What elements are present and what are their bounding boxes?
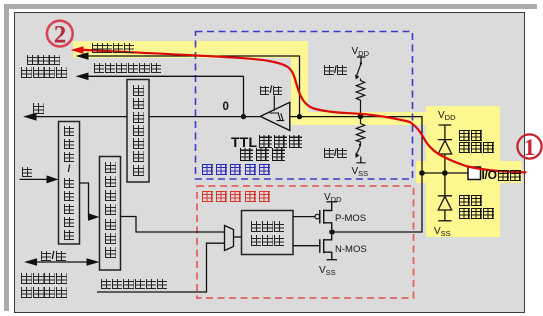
wires: output control to P-MOS gate (with bubble) bbox=[293, 216, 315, 218]
mux trapezoid bbox=[225, 226, 234, 251]
lower VSS tbar bbox=[438, 220, 451, 222]
label: 0 bbox=[223, 101, 229, 113]
label: N-MOS bbox=[335, 244, 367, 255]
wire: output control to N-MOS gate bbox=[293, 245, 319, 247]
red analog path curve bbox=[80, 50, 527, 173]
wire: pad rail horizontal bbox=[422, 172, 468, 174]
label: 开/关 (pull-up) bbox=[324, 65, 347, 76]
node: mos drain junction bbox=[329, 229, 335, 235]
wire: output register to mux bbox=[121, 217, 225, 233]
wire: mos output to pad column bbox=[332, 173, 422, 232]
protection diode upper: VDD tbar bbox=[439, 125, 452, 139]
frame shadow top bbox=[4, 4, 537, 9]
label: 触发器 bbox=[240, 148, 285, 161]
pull-down VSS tbar bbox=[356, 157, 365, 163]
arrow analog input (black) bbox=[76, 52, 89, 60]
transistor P-MOS bbox=[320, 202, 332, 229]
label: to on-chip peripheral (至片上) bbox=[27, 55, 60, 66]
label: 读 bbox=[33, 103, 44, 121]
label: 输出控 制电路 bbox=[251, 221, 285, 246]
node: rail/resistor junction bbox=[358, 113, 364, 119]
label: 输入驱动器 (blue) bbox=[202, 164, 270, 175]
svg-text:1: 1 bbox=[524, 135, 536, 160]
label: 读/写 bbox=[41, 250, 66, 262]
label: 写 bbox=[22, 167, 32, 185]
yellow I/O pad strip bbox=[416, 161, 522, 183]
node: alt-input tap bbox=[241, 114, 246, 119]
wire: analog input line bbox=[88, 56, 300, 117]
label: 保护 (upper) bbox=[459, 130, 482, 141]
wire: mux to output control bbox=[234, 236, 242, 238]
label: TTL施密特 bbox=[231, 134, 302, 150]
label: VDD (pull-up) bbox=[352, 46, 370, 58]
label: 开/关 (pull-down) bbox=[324, 148, 347, 159]
protection diode lower: D2 bbox=[438, 173, 452, 221]
label: 模拟输入 bbox=[92, 43, 135, 53]
wire: alt function output bbox=[97, 243, 225, 292]
wire: write arrow bbox=[20, 178, 50, 180]
label: VDD (pmos) bbox=[324, 192, 342, 204]
label: 外设模块 bbox=[21, 67, 67, 78]
box: input data register bbox=[127, 80, 149, 183]
label: 开/关 (trigger) bbox=[260, 85, 283, 96]
svg-text:2: 2 bbox=[54, 22, 67, 49]
frame shadow left bbox=[4, 4, 9, 311]
vertical text: 位设置/清除寄存器 bbox=[64, 126, 74, 240]
node at diode branch bbox=[442, 170, 448, 176]
N-MOS VSS tbar bbox=[327, 259, 338, 261]
label: VDD (diode) bbox=[438, 110, 456, 122]
label: 复用功能输入 bbox=[94, 63, 162, 73]
input driver dashed box bbox=[196, 32, 413, 180]
circled 1 bbox=[517, 134, 541, 158]
I/O pad square bbox=[468, 167, 481, 180]
node at column bbox=[419, 170, 425, 176]
label: P-MOS bbox=[335, 213, 366, 224]
P-MOS VDD tbar bbox=[327, 201, 338, 203]
trigger hysteresis symbol bbox=[270, 113, 285, 121]
wire: read/write double arrow bbox=[36, 261, 87, 263]
box: bit set/clear register bbox=[59, 122, 80, 245]
yellow highlight band C (pad rail) bbox=[289, 112, 427, 125]
label: VSS (diode) bbox=[434, 226, 451, 238]
circled 2 bbox=[47, 21, 73, 47]
wire: read line to input data register bbox=[35, 116, 127, 118]
box: output control circuit bbox=[242, 211, 294, 255]
label: 复用功能输出 bbox=[101, 279, 167, 289]
output driver dashed box bbox=[197, 186, 414, 298]
vertical text: 输出数据寄存器 bbox=[105, 162, 116, 259]
wire: trigger to pad rail bbox=[290, 117, 422, 173]
label: 输出驱动器 (red) bbox=[202, 191, 270, 202]
label: 二极管 (lower) bbox=[459, 208, 494, 219]
arrow alt-function-input bbox=[76, 73, 89, 81]
arrow read left bbox=[23, 113, 37, 121]
wire: main rail register to trigger tip bbox=[149, 116, 260, 118]
diode D1 bbox=[438, 140, 452, 173]
label: VSS (pull-down) bbox=[352, 166, 369, 178]
yellow highlight band B (vertical) bbox=[291, 41, 308, 113]
label: 二极管 (upper) bbox=[459, 142, 494, 153]
red arrow head bbox=[71, 46, 84, 54]
resistor R-pulldown bbox=[356, 119, 364, 145]
resistor R-pullup bbox=[356, 79, 364, 115]
label: 来自片上 bbox=[21, 273, 67, 284]
label: 外设模块 (bottom) bbox=[21, 287, 67, 298]
pull-up: VDD tbar bbox=[357, 57, 366, 63]
wire: alt input vertical bbox=[88, 76, 244, 116]
yellow highlight band A (analog input row) bbox=[73, 41, 308, 59]
trigger on/off switch line bbox=[273, 96, 275, 111]
box: output data register bbox=[100, 157, 121, 271]
label: VSS (nmos) bbox=[319, 265, 336, 277]
vertical text: 输入数据寄存器 bbox=[133, 85, 144, 176]
label: 保护 (lower) bbox=[459, 195, 482, 206]
yellow protection-diode box bbox=[426, 106, 500, 237]
wire: bit set/reset to output register bbox=[80, 183, 91, 217]
label: I/O端口 bbox=[482, 168, 522, 182]
pull-down switch lever bbox=[359, 144, 361, 146]
pull-up switch lever bbox=[357, 64, 362, 77]
node: analog tap bbox=[297, 114, 302, 119]
TTL schmitt trigger triangle bbox=[260, 102, 290, 130]
transistor N-MOS bbox=[320, 235, 332, 260]
